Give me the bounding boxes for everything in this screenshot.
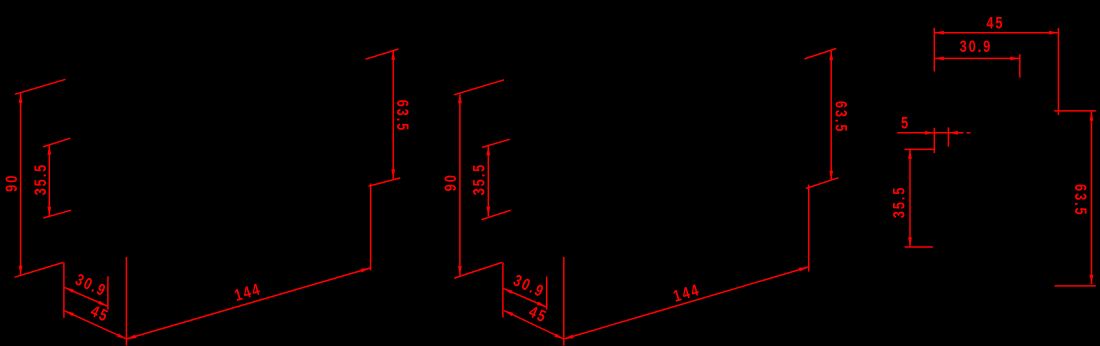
wire ext 35.5-top view2 <box>482 139 510 147</box>
dim 90 view1 <box>19 93 23 275</box>
wire ext 35.5-bottom horizontal view3 <box>905 246 933 248</box>
wire ext 63.5-bottom horizontal view3 <box>1055 285 1096 287</box>
dim 144 view1 <box>126 268 370 339</box>
wire ext bottom-left edge view2 <box>454 262 502 278</box>
wire ext bottom-left edge view1 <box>15 262 64 277</box>
wire ext top-left edge view2 <box>454 80 504 95</box>
wire ext 30.9-right vertical view3 <box>1019 54 1021 77</box>
wire ext 35.5-bottom view1 <box>43 210 71 218</box>
wire ext 63.5-top view2 <box>805 49 837 59</box>
svg-text:35.5: 35.5 <box>32 163 50 196</box>
wire ext 63.5-top horizontal view3 <box>1054 110 1096 112</box>
dim 30.9 view1 <box>65 287 108 306</box>
svg-text:5: 5 <box>901 115 910 133</box>
dim 30.9 view2 <box>503 288 546 307</box>
dim 63.5 view2 <box>829 51 833 181</box>
svg-text:63.5: 63.5 <box>392 100 410 133</box>
svg-text:30.9: 30.9 <box>960 39 993 57</box>
wire ext 35.5-top view1 <box>43 138 70 147</box>
svg-text:45: 45 <box>986 15 1004 33</box>
wire ext 5-left vertical view3 <box>933 128 935 153</box>
wire ext left vertical view3 <box>933 28 935 72</box>
dim 63.5 view1 <box>391 50 395 178</box>
wire ext corner vertical view1 <box>63 262 65 317</box>
dim 45 view1 <box>65 311 127 339</box>
wire ext 30.9-right vertical view2 <box>546 277 548 310</box>
dim 45 view2 <box>504 311 564 340</box>
wire ext 63.5-bottom view1 <box>369 178 401 186</box>
dim 63.5 view3 <box>1090 111 1094 284</box>
wire ext 30.9-right vertical view1 <box>107 276 109 309</box>
wire ext front-corner vertical view2 <box>563 257 565 346</box>
dim 35.5 view1 <box>47 145 51 216</box>
svg-text:35.5: 35.5 <box>471 163 489 196</box>
dim 35.5 view2 <box>486 146 490 217</box>
svg-text:63.5: 63.5 <box>831 101 849 134</box>
wire ext 63.5-top view1 <box>366 49 399 59</box>
svg-text:90: 90 <box>442 173 460 191</box>
dim 35.5 view3 <box>908 149 912 246</box>
svg-text:35.5: 35.5 <box>891 186 909 219</box>
wire ext 35.5-top horizontal view3 <box>905 148 934 150</box>
wire ext 45-right vertical view3 <box>1057 28 1059 115</box>
dim 90 view2 <box>458 94 462 276</box>
wire ext 35.5-bottom view2 <box>481 210 511 220</box>
wire ext right vertical view1 <box>370 184 372 271</box>
svg-text:90: 90 <box>4 174 22 192</box>
dim 45 view3 <box>934 31 1058 35</box>
wire ext 63.5-bottom view2 <box>806 178 839 189</box>
wire ext front-corner vertical view1 <box>125 257 127 346</box>
dim 144 view2 <box>564 267 809 339</box>
dim 5 view3 <box>897 131 970 135</box>
wire ext 5-right vertical view3 <box>947 127 949 146</box>
dim 30.9 view3 <box>934 57 1020 61</box>
wire ext corner vertical view2 <box>502 262 504 317</box>
svg-text:63.5: 63.5 <box>1070 184 1088 217</box>
wire ext top-left edge view1 <box>15 79 66 94</box>
wire ext right vertical view2 <box>808 185 810 272</box>
